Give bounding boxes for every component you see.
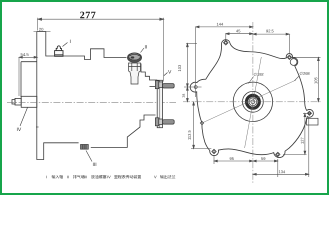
centerline input shaft	[7, 102, 176, 104]
wire housing bottom right profile	[91, 115, 156, 147]
dim 144	[196, 26, 253, 97]
dim 127 vertical right	[283, 113, 311, 154]
housing outline blob	[190, 40, 313, 158]
concentric circle r10.4	[243, 91, 264, 112]
wire steps right of valve II	[141, 64, 157, 81]
hole TL diamond	[224, 40, 229, 45]
dimension 54.5	[19, 56, 37, 96]
dim 103 vertical	[186, 43, 197, 87]
dim 95	[214, 156, 253, 164]
input shaft hub	[21, 96, 37, 107]
boss marker on left outline	[200, 121, 204, 125]
label IV leader	[20, 108, 28, 127]
centerline horizontal	[183, 101, 322, 103]
hole L left lug	[194, 86, 197, 89]
hole R with diamond	[307, 111, 311, 115]
output flange plate V	[157, 80, 162, 127]
drain plug III	[81, 145, 89, 150]
dim 59	[253, 159, 278, 177]
hole BL diamond	[212, 149, 216, 153]
dim 34 vertical	[186, 87, 188, 102]
dimension 277	[38, 18, 164, 82]
front cover plate	[21, 62, 37, 98]
center circle	[251, 100, 255, 104]
input shaft tip	[15, 98, 21, 105]
dim 105 vertical right	[293, 57, 321, 102]
label V leader	[164, 73, 168, 77]
breather valve II	[127, 53, 141, 84]
breather valve I	[55, 46, 63, 56]
concentric circle r19.7	[233, 82, 272, 121]
TR curl circle	[290, 59, 297, 66]
diagonal shallow -26deg through boss	[202, 80, 296, 123]
hole TR diamond	[287, 55, 291, 59]
label III leader	[86, 151, 92, 162]
centerline vertical	[252, 22, 254, 183]
dim 92.5	[253, 33, 290, 54]
label phi192	[249, 77, 254, 84]
label I leader	[63, 43, 68, 47]
label phi268	[295, 76, 300, 81]
tick right of hole L	[184, 86, 202, 88]
tab rectangle right	[307, 118, 319, 125]
bearing ring bold	[247, 95, 260, 108]
dim 113.5 vertical	[191, 102, 211, 149]
label II leader	[141, 48, 145, 53]
flange top bolt	[155, 81, 174, 89]
input shaft end	[12, 100, 15, 104]
tick on wall	[36, 126, 39, 128]
circle r3.9	[249, 98, 257, 106]
wire shelf under bolt	[150, 86, 158, 88]
wire main housing outline	[37, 32, 127, 60]
hole BR diamond	[276, 152, 280, 156]
dim 45	[226, 33, 253, 40]
wire housing left wall	[37, 32, 79, 160]
dim 134	[253, 117, 309, 177]
flange bottom bolt	[155, 118, 174, 126]
diagonal steep 80deg	[245, 57, 262, 148]
dimension 20	[34, 31, 51, 33]
